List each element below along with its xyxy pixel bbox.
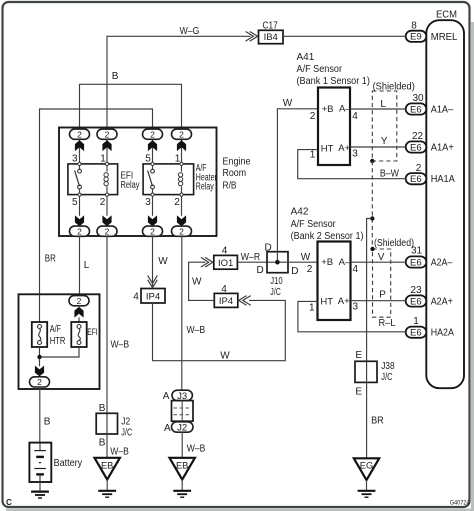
A/F sensor B1S1 component box	[318, 88, 351, 166]
svg-text:HA1A: HA1A	[431, 174, 455, 185]
relay box bottom connector wedge pin3	[148, 215, 157, 226]
connector wedge EFI fuse	[74, 307, 83, 318]
svg-text:3: 3	[145, 197, 151, 208]
svg-text:P: P	[379, 290, 386, 301]
wire shield tap to J38	[367, 219, 373, 362]
gray margin right	[471, 22, 474, 511]
wire to EFI fuse	[78, 317, 80, 322]
junction connector IP4 lower	[133, 276, 165, 303]
junction connector J10 J/C node D	[257, 242, 299, 298]
ground EB	[173, 491, 191, 497]
svg-text:W–R: W–R	[241, 252, 260, 263]
A/F sensor bank1 label	[297, 52, 370, 87]
wire B J2 to EB	[99, 434, 129, 457]
svg-text:(Bank 2 Sensor 1): (Bank 2 Sensor 1)	[291, 231, 364, 242]
wire A/F HTR fuse feed	[39, 294, 41, 322]
svg-text:ECM: ECM	[436, 9, 457, 20]
connector E6 pin 23 A2A+	[406, 285, 453, 307]
svg-text:2: 2	[416, 163, 422, 174]
svg-text:A: A	[163, 391, 170, 402]
relay box bottom connector wedge pin2	[177, 215, 186, 226]
relay box bottom connector oval 2	[97, 226, 117, 236]
wire W-B from EFI relay pin2 to J2	[107, 236, 129, 434]
junction shield bank2	[370, 247, 374, 251]
relay box bottom connector oval 2	[70, 226, 90, 236]
connector E6 pin 22 A1A+	[406, 131, 454, 153]
shield bank1 dashed	[372, 81, 415, 161]
svg-text:BR: BR	[371, 416, 384, 427]
svg-text:HT: HT	[321, 143, 334, 154]
relay box bottom connector wedge pin5	[75, 215, 84, 226]
svg-text:W: W	[158, 256, 168, 267]
junction connector J38 J/C	[355, 350, 395, 397]
svg-text:W: W	[192, 276, 202, 287]
svg-text:3: 3	[352, 149, 358, 160]
svg-text:1: 1	[413, 316, 419, 327]
svg-text:L: L	[84, 260, 90, 271]
svg-text:BR: BR	[45, 254, 56, 265]
wire B-W bank1 HT to HA1A	[298, 150, 406, 180]
svg-text:IP4: IP4	[146, 291, 160, 302]
svg-text:W–B: W–B	[110, 446, 129, 457]
svg-text:1: 1	[309, 303, 315, 314]
svg-text:2: 2	[100, 197, 106, 208]
ground triangle EG	[354, 458, 379, 480]
svg-text:E: E	[355, 350, 362, 361]
connector wedge battery feed	[35, 366, 44, 377]
svg-text:A1A+: A1A+	[431, 143, 454, 154]
svg-text:A42: A42	[291, 207, 309, 218]
svg-text:R–L: R–L	[379, 318, 396, 329]
svg-text:(Shielded): (Shielded)	[374, 238, 414, 249]
svg-text:J38: J38	[381, 361, 395, 372]
connector oval 2 battery feed	[30, 377, 50, 387]
wire P bank2 A+ to A2A+	[351, 290, 406, 301]
svg-text:J/C: J/C	[381, 372, 392, 383]
A/F sensor B2S1 component box	[318, 242, 351, 321]
connector E9 pin 8 MREL	[406, 21, 458, 43]
wire fuse outputs join	[40, 347, 80, 357]
A/F heater relay switch pins 5-3	[148, 140, 155, 216]
connector E6 pin 1 HA2A	[406, 316, 454, 339]
svg-text:3: 3	[72, 154, 78, 165]
svg-text:B: B	[44, 416, 51, 427]
relay box bottom connector oval 2	[172, 226, 192, 236]
svg-text:1: 1	[100, 154, 106, 165]
svg-text:A2A–: A2A–	[431, 258, 453, 269]
svg-text:22: 22	[412, 131, 424, 142]
fuse EFI	[71, 322, 97, 347]
ground battery	[31, 492, 49, 498]
svg-text:+B: +B	[321, 257, 333, 268]
wire EG to ground	[366, 480, 368, 491]
wire L bank1 A- to A1A-	[350, 99, 406, 110]
svg-text:+B: +B	[322, 104, 334, 115]
svg-text:2: 2	[310, 111, 316, 122]
svg-text:A+: A+	[338, 143, 350, 154]
connector oval 2 above EFI fuse	[69, 296, 89, 306]
wire W-G from IB4 to E9 MREL	[283, 35, 406, 37]
svg-text:4: 4	[353, 264, 359, 275]
svg-text:W–B: W–B	[111, 339, 130, 350]
wire W-G from EFI relay coil to IB4	[107, 26, 251, 129]
svg-text:4: 4	[133, 292, 139, 303]
svg-text:W–G: W–G	[180, 26, 200, 37]
svg-text:A/F Sensor: A/F Sensor	[291, 219, 337, 230]
svg-text:EFI: EFI	[87, 327, 97, 337]
svg-text:D: D	[257, 265, 264, 276]
svg-text:Relay: Relay	[121, 180, 140, 191]
connector oval A J3	[163, 390, 193, 402]
wire R-L bank2 HT to HA2A	[298, 301, 406, 331]
wire EB to ground	[106, 480, 108, 491]
svg-text:1: 1	[310, 149, 316, 160]
svg-text:C17: C17	[263, 21, 279, 32]
svg-text:EG: EG	[360, 461, 373, 471]
svg-text:4: 4	[352, 111, 358, 122]
svg-text:E9: E9	[410, 32, 422, 43]
svg-text:Y: Y	[381, 136, 388, 147]
svg-text:A–: A–	[339, 104, 351, 115]
wire B linking EFI relay pin3 and heater relay pin1	[80, 71, 182, 130]
wire V bank2 A- to A2A-	[351, 252, 406, 263]
svg-text:W–B: W–B	[187, 325, 206, 336]
relay box top connector oval 2	[97, 129, 117, 139]
relay box top connector wedge pin1	[177, 140, 186, 151]
svg-text:1: 1	[175, 154, 181, 165]
wire W J10 up to bank1 +B	[277, 98, 318, 252]
svg-text:HTR: HTR	[50, 336, 66, 347]
svg-text:(Shielded): (Shielded)	[373, 81, 415, 92]
ECM U1	[426, 9, 464, 388]
EFI relay K1	[68, 164, 140, 195]
svg-text:EB: EB	[101, 461, 113, 471]
A/F heater relay coil pins 1-2	[178, 140, 183, 216]
svg-text:IB4: IB4	[264, 32, 278, 43]
svg-text:2: 2	[174, 197, 180, 208]
svg-text:Room: Room	[223, 168, 247, 179]
engine room R/B box	[59, 128, 251, 237]
svg-text:J2: J2	[121, 417, 130, 428]
connector oval A J2	[164, 422, 193, 434]
junction block J3/J2	[172, 401, 194, 422]
EFI relay coil pins 1-2	[104, 140, 109, 216]
wire W-R IO1 to J10	[237, 252, 267, 263]
svg-text:4: 4	[222, 245, 228, 256]
svg-text:E: E	[355, 386, 362, 397]
ground triangle EB	[95, 458, 120, 480]
relay box top connector oval 2	[172, 129, 192, 139]
connector E6 pin 30 A1A-	[406, 93, 454, 115]
svg-text:HT: HT	[320, 296, 333, 307]
wire BR horizontal to A/F heater relay pin5	[40, 109, 153, 294]
svg-text:5: 5	[72, 197, 78, 208]
svg-text:3: 3	[353, 302, 359, 313]
wire W from A/F heater relay pin3 to IP4	[153, 236, 169, 288]
svg-text:B: B	[112, 71, 119, 82]
relay box bottom connector wedge pin2	[102, 215, 111, 226]
ground EG	[358, 491, 376, 497]
svg-text:A/F: A/F	[50, 324, 61, 335]
svg-text:Engine: Engine	[223, 156, 251, 167]
wire W-B J2 to EB	[182, 432, 205, 457]
svg-text:L: L	[380, 99, 386, 110]
svg-text:W: W	[301, 252, 311, 263]
relay box top connector oval 2	[143, 129, 163, 139]
wire W J10 to bank2 +B	[288, 252, 318, 263]
svg-text:E6: E6	[410, 328, 422, 339]
svg-text:E6: E6	[410, 296, 422, 307]
relay box top connector wedge pin5	[148, 140, 157, 151]
svg-text:A41: A41	[297, 52, 315, 63]
A/F sensor bank2 label	[291, 207, 364, 242]
svg-text:EB: EB	[176, 461, 188, 471]
connector E6 pin 2 HA1A	[406, 163, 455, 185]
svg-text:E6: E6	[410, 174, 422, 185]
svg-text:A2A+: A2A+	[431, 297, 453, 308]
relay box bottom connector oval 2	[143, 226, 163, 236]
svg-text:J2: J2	[177, 422, 187, 433]
svg-text:MREL: MREL	[431, 32, 458, 43]
EFI relay switch pins 3-5	[75, 140, 82, 216]
junction connector IP4 right	[214, 284, 250, 308]
wire BR J38 to EG	[367, 382, 384, 458]
junction connector IO1	[201, 245, 238, 269]
svg-text:B: B	[99, 403, 106, 414]
svg-text:B–W: B–W	[380, 168, 399, 179]
ground triangle EB	[170, 458, 195, 480]
junction connector C17 IB4	[246, 21, 283, 44]
svg-text:J10: J10	[270, 276, 283, 287]
svg-text:IP4: IP4	[219, 296, 233, 307]
svg-text:23: 23	[410, 285, 422, 296]
svg-text:E6: E6	[410, 104, 422, 115]
svg-text:E6: E6	[410, 257, 422, 268]
svg-text:D: D	[265, 242, 272, 253]
svg-text:A–: A–	[339, 257, 351, 268]
svg-text:Relay: Relay	[196, 182, 214, 193]
svg-text:A/F Sensor: A/F Sensor	[297, 64, 343, 75]
junction shield tap	[370, 216, 374, 220]
svg-text:E6: E6	[410, 142, 422, 153]
svg-text:2: 2	[307, 264, 313, 275]
svg-text:5: 5	[145, 154, 151, 165]
wire W IP4 loop bottom	[153, 300, 286, 361]
svg-text:B: B	[99, 437, 106, 448]
battery BT1	[29, 443, 82, 491]
svg-text:W: W	[220, 350, 230, 361]
wire Y bank1 A+ to A1A+	[350, 136, 406, 147]
shield bank2 dashed	[373, 238, 415, 317]
ground EB	[98, 491, 116, 497]
junction shield bank1 drain	[370, 159, 374, 163]
relay box top connector oval 2	[70, 129, 90, 139]
svg-text:G40724: G40724	[450, 501, 471, 507]
fuse block box	[19, 294, 100, 389]
fuse A/F HTR	[32, 322, 66, 347]
svg-text:C: C	[6, 498, 12, 507]
svg-text:A+: A+	[338, 296, 350, 307]
wire L from EFI relay pin5 to EFI fuse	[80, 236, 90, 295]
svg-text:V: V	[378, 252, 385, 263]
svg-text:J/C: J/C	[121, 427, 132, 438]
junction connector J2 J/C left	[96, 403, 132, 439]
svg-text:HA2A: HA2A	[431, 328, 454, 339]
wire W-B from A/F heater relay pin2 to J3	[182, 236, 206, 390]
svg-text:W–B: W–B	[187, 443, 206, 454]
svg-text:A1A–: A1A–	[431, 105, 454, 116]
relay box top connector wedge pin1	[102, 140, 111, 151]
svg-text:30: 30	[412, 93, 424, 104]
svg-text:8: 8	[411, 21, 417, 32]
A/F heater relay K2	[143, 163, 217, 195]
svg-text:A: A	[164, 423, 171, 434]
svg-text:(Bank 1 Sensor 1): (Bank 1 Sensor 1)	[297, 76, 370, 87]
connector E6 pin 31 A2A-	[406, 245, 453, 268]
svg-text:W: W	[283, 98, 293, 109]
svg-text:D: D	[291, 266, 298, 277]
relay box top connector wedge pin3	[75, 140, 84, 151]
svg-text:IO1: IO1	[218, 258, 233, 269]
wire EB to ground	[181, 480, 183, 491]
wire shield drain dashed	[371, 161, 373, 249]
junction fuse output	[37, 355, 41, 359]
svg-text:J/C: J/C	[270, 287, 281, 298]
wire W IP4 to IO1 rail	[189, 262, 215, 300]
svg-text:4: 4	[221, 284, 227, 295]
svg-text:Battery: Battery	[54, 458, 83, 469]
svg-text:R/B: R/B	[223, 180, 237, 191]
wire B fuse block to battery	[40, 387, 51, 443]
gray margin bottom	[6, 509, 474, 511]
